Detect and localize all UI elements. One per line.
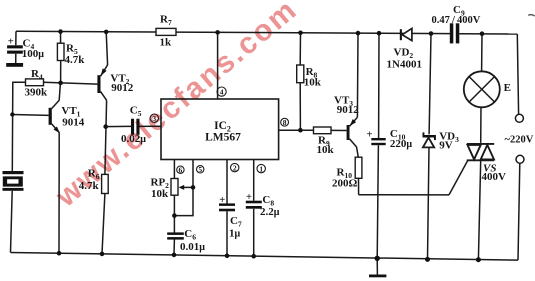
svg-text:3: 3 bbox=[152, 114, 156, 123]
transistor VT3 collector diagonal bbox=[350, 139, 357, 147]
wire VT1 emitter vertical bbox=[58, 132, 60, 253]
wire gate diagonal to triac bbox=[449, 160, 468, 195]
svg-text:+: + bbox=[8, 37, 14, 48]
label VT2 9012 bbox=[110, 72, 133, 94]
wire R6 bottom lead bbox=[102, 194, 105, 254]
wire RP2 bottom lead to C6 bbox=[173, 195, 175, 232]
svg-text:0.02μ: 0.02μ bbox=[121, 133, 146, 145]
label RP2 10k bbox=[151, 177, 170, 201]
svg-text:9V: 9V bbox=[439, 140, 453, 152]
svg-text:0.01μ: 0.01μ bbox=[180, 241, 205, 253]
svg-text:1N4001: 1N4001 bbox=[387, 58, 422, 70]
resistor R5 body bbox=[57, 43, 64, 60]
wire lamp bottom lead bbox=[480, 107, 482, 143]
wire R4 to VT2 base bbox=[44, 82, 98, 84]
capacitor C5 plates bbox=[131, 119, 140, 135]
svg-text:390k: 390k bbox=[25, 87, 49, 99]
capacitor C6 plates bbox=[167, 232, 184, 239]
wire VT2 collector vertical to R6 bbox=[105, 100, 107, 174]
wire R5 bottom lead bbox=[60, 61, 62, 83]
potentiometer RP2 body bbox=[171, 179, 178, 196]
pin 8 circle bbox=[281, 118, 289, 127]
resistor R9 body bbox=[314, 127, 332, 134]
svg-text:6: 6 bbox=[179, 165, 183, 174]
pin 3 circle bbox=[150, 114, 158, 123]
svg-text:+: + bbox=[367, 129, 373, 140]
wire zener VD3 bottom lead bbox=[428, 147, 430, 259]
wire R8 bottom lead bbox=[299, 83, 301, 131]
resistor R7 body bbox=[156, 28, 176, 35]
svg-text:1μ: 1μ bbox=[229, 227, 241, 239]
wire IC pin 2 lead bbox=[226, 160, 228, 204]
wire RP2 wiper arrow line bbox=[181, 186, 194, 188]
wire R4 left lead and left column down bbox=[12, 82, 25, 171]
transducer B (crystal) bbox=[3, 171, 24, 191]
svg-text:100μ: 100μ bbox=[22, 48, 45, 60]
wire C6 bottom lead bbox=[173, 239, 175, 255]
svg-text:10k: 10k bbox=[151, 188, 169, 200]
svg-text:9012: 9012 bbox=[337, 104, 360, 116]
transistor VT2 emitter diagonal with arrow bbox=[101, 65, 108, 76]
pin 5 circle bbox=[197, 165, 204, 174]
wire bottom rail bbox=[11, 253, 519, 261]
svg-text:400V: 400V bbox=[482, 171, 507, 183]
node C (VT2 collector / C5) bbox=[103, 124, 108, 129]
svg-text:0.47 / 400V: 0.47 / 400V bbox=[432, 15, 481, 26]
svg-text:9014: 9014 bbox=[62, 117, 84, 129]
IC box U1 LM567 bbox=[161, 99, 279, 160]
junction dots top rail bbox=[58, 29, 484, 36]
label R9 10k bbox=[317, 135, 335, 157]
wire VT3 emitter vertical bbox=[356, 33, 359, 117]
ground (main, below bottom rail) bbox=[369, 275, 386, 278]
label C5 0.02u bbox=[121, 105, 146, 145]
node B (R4/R5/VT1 collector) bbox=[58, 81, 63, 86]
svg-text:4.7k: 4.7k bbox=[65, 54, 86, 66]
wire IC pin 1 lead bbox=[253, 160, 255, 201]
wire IC pin 5 lead bbox=[192, 160, 194, 188]
svg-text:E: E bbox=[504, 82, 511, 94]
wire top rail middle segment bbox=[176, 32, 450, 34]
label C6 0.01u bbox=[180, 228, 205, 253]
wire VT1 base line bbox=[12, 114, 48, 117]
transistor VT1 base bar bbox=[49, 108, 52, 125]
svg-text:1k: 1k bbox=[160, 37, 173, 49]
svg-text:200Ω: 200Ω bbox=[332, 177, 358, 189]
wire C4 top lead bbox=[15, 31, 17, 45]
node F (RP2 bottom tie) bbox=[172, 213, 177, 218]
potentiometer RP2 wiper arrowhead bbox=[179, 185, 185, 190]
label R7 1k bbox=[160, 14, 173, 49]
svg-text:10k: 10k bbox=[304, 77, 322, 89]
capacitor C7 plates bbox=[219, 203, 235, 211]
wire VT1 collector vertical bbox=[59, 83, 60, 100]
wire C5 to IC pin 3 bbox=[139, 125, 161, 127]
label C10 220u bbox=[390, 128, 413, 150]
wire ground stem bbox=[376, 258, 378, 274]
wire C7 bottom lead bbox=[226, 211, 228, 256]
wire R9 to VT3 base bbox=[331, 129, 347, 131]
triac VS bbox=[467, 144, 494, 160]
wire IC pin 8 to node bbox=[279, 129, 314, 131]
label C9 0.47/400V bbox=[432, 4, 481, 26]
label C8 2.2u bbox=[260, 194, 280, 218]
transistor VT3 emitter diagonal with arrow bbox=[350, 117, 358, 126]
svg-text:LM567: LM567 bbox=[205, 132, 241, 144]
wire C10 top lead bbox=[378, 33, 380, 138]
svg-text:220μ: 220μ bbox=[390, 138, 413, 150]
wire crystal bottom lead bbox=[11, 191, 13, 253]
label VD2 1N4001 bbox=[387, 47, 422, 71]
svg-text:5: 5 bbox=[198, 165, 202, 174]
svg-text:4.7k: 4.7k bbox=[79, 180, 100, 192]
lamp E bbox=[464, 71, 500, 107]
svg-text:+: + bbox=[219, 195, 225, 206]
wire top rail right segment bbox=[459, 33, 517, 35]
zener diode VD3 bbox=[423, 132, 436, 140]
diode VD2 1N4001 bbox=[400, 29, 402, 40]
ground (below C4) bbox=[6, 63, 23, 67]
svg-text:4: 4 bbox=[220, 87, 224, 96]
wire gate horizontal bbox=[359, 194, 449, 196]
pin 2 circle bbox=[231, 163, 239, 172]
wire C10 bottom lead to ground node bbox=[377, 145, 378, 258]
label R6 4.7k bbox=[79, 168, 100, 192]
junction dots bottom rail bbox=[57, 251, 481, 262]
wire lamp top lead bbox=[481, 34, 483, 72]
wire VT3 collector to R10 bbox=[357, 147, 359, 157]
svg-text:9012: 9012 bbox=[111, 82, 134, 94]
wire R8 top lead bbox=[299, 33, 301, 65]
svg-text:2: 2 bbox=[233, 163, 237, 172]
pin 6 circle bbox=[177, 165, 184, 174]
label VS 400V bbox=[482, 163, 507, 184]
resistor R4 body bbox=[26, 79, 44, 86]
node E (RP2 wiper) bbox=[191, 185, 196, 190]
terminal 2 (~220V bottom) bbox=[516, 155, 524, 163]
wire C8 bottom lead bbox=[253, 209, 255, 256]
scan artifact top-right bbox=[528, 14, 535, 17]
resistor R6 body bbox=[102, 174, 109, 193]
wire R5 top lead bbox=[60, 32, 62, 44]
svg-text:~220V: ~220V bbox=[505, 135, 534, 146]
capacitor C10 plates bbox=[371, 138, 385, 145]
svg-text:10k: 10k bbox=[317, 144, 335, 156]
label R5 4.7k bbox=[65, 43, 86, 67]
label C7 1u bbox=[229, 215, 242, 240]
transistor VT1 emitter diagonal with arrow bbox=[52, 124, 60, 133]
transistor VT2 collector diagonal bbox=[101, 91, 107, 100]
label VD3 9V bbox=[439, 130, 459, 151]
transistor VT2 base bar bbox=[97, 75, 100, 93]
terminal 1 (~220V top) bbox=[515, 114, 523, 122]
svg-text:1: 1 bbox=[259, 164, 263, 173]
label R10 200ohm bbox=[332, 166, 358, 189]
label IC2 LM567 bbox=[205, 120, 241, 144]
label R8 10k bbox=[304, 66, 322, 89]
capacitor C4 plates bbox=[7, 45, 23, 53]
wire top rail left segment bbox=[16, 30, 156, 33]
wire right edge lower (terminal 2 to bottom rail) bbox=[518, 164, 520, 261]
wire C4 bottom lead bbox=[15, 54, 17, 64]
label VT3 9012 bbox=[334, 95, 359, 116]
label VT1 9014 bbox=[61, 105, 84, 129]
wire VT2 emitter vertical bbox=[106, 32, 107, 65]
wire R10 bottom lead bbox=[358, 178, 360, 194]
transistor VT1 collector diagonal bbox=[52, 100, 60, 108]
svg-text:+: + bbox=[246, 192, 252, 203]
wire wiper tie-down bbox=[174, 187, 193, 215]
pin 4 circle bbox=[217, 87, 226, 96]
wire triac bottom lead bbox=[478, 160, 480, 259]
svg-text:8: 8 bbox=[283, 118, 287, 127]
capacitor C9 plates bbox=[450, 23, 460, 43]
resistor R10 body bbox=[355, 157, 362, 178]
pin 1 circle bbox=[257, 164, 265, 173]
capacitor C8 plates bbox=[246, 201, 262, 209]
wire IC pin 4 vertical bbox=[217, 32, 219, 99]
wire IC pin 6 lead bbox=[173, 160, 175, 179]
resistor R8 body bbox=[297, 65, 304, 83]
transistor VT3 base bar bbox=[347, 125, 350, 140]
wire right edge upper (to terminal 1) bbox=[517, 34, 518, 114]
node A (VT1 base tap) bbox=[10, 112, 14, 116]
svg-text:2.2μ: 2.2μ bbox=[260, 206, 280, 218]
wire node VT2-collector to C5 bbox=[106, 125, 131, 127]
label C4 100u bbox=[22, 38, 45, 61]
watermark www.elecfans.com bbox=[49, 0, 304, 214]
label R4 390k bbox=[25, 68, 49, 99]
node D (R8 / R9 / pin8) bbox=[298, 128, 303, 133]
wire zener VD3 top lead bbox=[429, 34, 431, 135]
